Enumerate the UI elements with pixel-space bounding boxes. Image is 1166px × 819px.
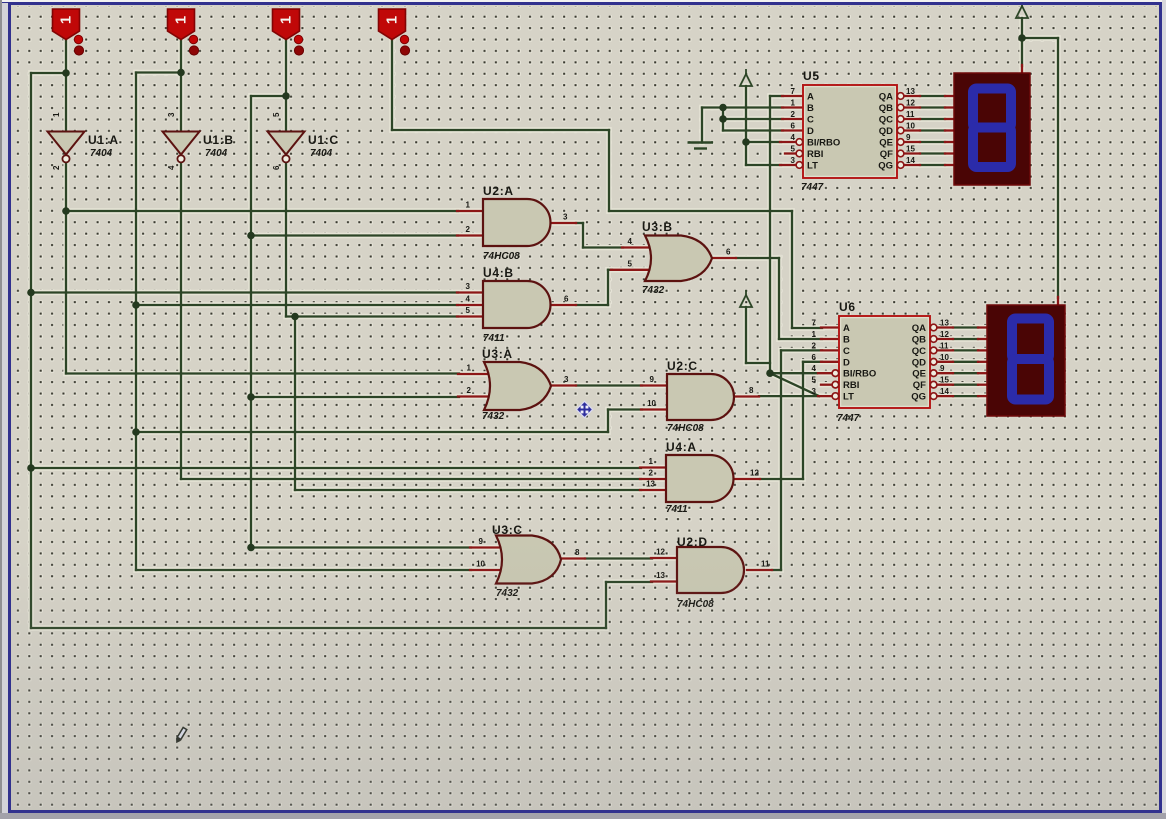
pin stub (937,396.1)-(953,396.1) <box>937 395 953 397</box>
pin stub (904,119)-(920,119) <box>904 118 920 120</box>
svg-text:C: C <box>843 346 850 357</box>
AND gate U2:C 74HC08 <box>667 374 734 420</box>
AND gate U4:B 7411 <box>483 281 551 328</box>
svg-text:A: A <box>843 323 850 334</box>
wire junction (136,432) <box>132 428 140 436</box>
svg-text:QG: QG <box>878 161 893 172</box>
wire segment (920,153.5)-(945,153.5) <box>920 152 945 154</box>
wire segment (920,107.5)-(945,107.5) <box>920 106 945 108</box>
wire junction (770,373.2) <box>766 369 774 377</box>
svg-text:1: 1 <box>649 457 654 466</box>
wire segment (31,292.5)-(458,292.5) <box>31 291 458 293</box>
pin stub (945,153.5)-(954,153.5) <box>945 152 954 154</box>
svg-text:74HC08: 74HC08 <box>667 423 704 434</box>
svg-text:U4:B: U4:B <box>483 266 514 280</box>
wire junction (251,547.5) <box>247 544 255 552</box>
wire segment (136,570)-(471,570) <box>136 569 471 571</box>
svg-text:U3:B: U3:B <box>642 220 673 234</box>
wire segment (181,479)-(641,479) <box>181 478 641 480</box>
svg-text:10: 10 <box>906 122 915 131</box>
wire segment (66,39)-(66,132) <box>65 39 67 132</box>
pin stub (470,547.5)-(504,547.5) <box>470 546 504 548</box>
svg-text:1: 1 <box>467 364 472 373</box>
wire segment (136,432)-(608,432) <box>136 431 608 433</box>
pin stub (782,96)-(803,96) <box>782 95 803 97</box>
wire segment (66,163)-(66,373.5) <box>65 163 67 374</box>
pin stub (937,384.7)-(953,384.7) <box>937 384 953 386</box>
svg-text:4: 4 <box>628 237 633 246</box>
svg-text:14: 14 <box>940 387 949 396</box>
svg-text:QC: QC <box>879 115 893 126</box>
svg-text:U5: U5 <box>803 69 820 83</box>
svg-text:6: 6 <box>564 295 569 304</box>
pin stub (937,327.5)-(953,327.5) <box>937 326 953 328</box>
pin stub (551,385.5)-(576,385.5) <box>551 384 576 386</box>
wire segment (136,72.5)-(136,570) <box>135 73 137 571</box>
svg-text:BI/RBO: BI/RBO <box>807 138 840 149</box>
svg-text:3: 3 <box>564 375 569 384</box>
svg-text:C: C <box>807 115 814 126</box>
logic state toggle input 1 <box>53 9 80 40</box>
wire segment (792,328)-(822,328) <box>792 327 822 329</box>
pin stub (904,130.5)-(920,130.5) <box>904 129 920 131</box>
svg-text:1: 1 <box>52 112 61 117</box>
pin stub (735,479)-(760,479) <box>735 478 760 480</box>
pin stub (818,373.2)-(832.3,373.2) <box>818 372 832 374</box>
window frame <box>0 0 1166 2</box>
wire segment (608,432)-(608,409.5) <box>607 410 609 433</box>
wire segment (779,258)-(779,339) <box>778 258 780 339</box>
wire segment (953,396.1)-(978,396.1) <box>953 395 978 397</box>
svg-text:1: 1 <box>173 16 190 24</box>
pin stub (712,258)-(736,258) <box>712 257 736 259</box>
pin stub (747,570)-(772,570) <box>747 569 772 571</box>
BCD decoder U5 7447 <box>803 85 897 178</box>
pin stub (780,165)-(796.3,165) <box>780 164 796 166</box>
logic state toggle input 2 <box>168 9 195 40</box>
pin stub (978,361.8)-(987,361.8) <box>978 361 987 363</box>
svg-text:U3:A: U3:A <box>482 347 513 361</box>
svg-text:8: 8 <box>749 386 754 395</box>
OR gate U3:A 7432 <box>484 362 551 410</box>
pin stub (821,361.8)-(839,361.8) <box>821 361 839 363</box>
wire segment (1022,38)-(1058,38) <box>1022 37 1058 39</box>
AND gate U2:A 74HC08 <box>483 199 550 246</box>
svg-text:3: 3 <box>812 387 817 396</box>
wire junction (136,305) <box>132 301 140 309</box>
svg-text:1: 1 <box>466 201 471 210</box>
pin stub (945,107.5)-(954,107.5) <box>945 106 954 108</box>
wire segment (392,130)-(609,130) <box>392 129 609 131</box>
wire segment (953,384.7)-(978,384.7) <box>953 384 978 386</box>
svg-text:BI/RBO: BI/RBO <box>843 369 876 380</box>
svg-text:6: 6 <box>726 248 731 257</box>
BCD decoder U6 7447 <box>839 316 930 408</box>
pin stub (1022,65)-(1022,74) <box>1021 65 1023 74</box>
wire segment (286,316.5)-(458,316.5) <box>286 315 458 317</box>
svg-text:4: 4 <box>812 364 817 373</box>
wire segment (286,96)-(251,96) <box>251 95 286 97</box>
wire segment (779,339)-(822,339) <box>779 338 822 340</box>
svg-text:3: 3 <box>563 213 568 222</box>
svg-text:QF: QF <box>913 380 926 391</box>
pin stub (551,305)-(576,305) <box>551 304 576 306</box>
svg-text:13: 13 <box>940 319 949 328</box>
svg-text:3: 3 <box>167 112 176 117</box>
pin stub (937,373.2)-(953,373.2) <box>937 372 953 374</box>
pin stub (945,142)-(954,142) <box>945 141 954 143</box>
pin stub (735,396.5)-(759,396.5) <box>735 395 759 397</box>
pin stub (937,350.4)-(953,350.4) <box>937 349 953 351</box>
svg-text:1: 1 <box>791 99 796 108</box>
wire segment (66,373.5)-(459,373.5) <box>66 372 459 374</box>
wire junction (723,119) <box>719 115 727 123</box>
pencil cursor <box>174 727 187 744</box>
pin stub (611,269.8)-(653,269.8) <box>611 269 653 271</box>
svg-text:5: 5 <box>628 259 633 268</box>
wire segment (803,479)-(803,361.8) <box>802 362 804 479</box>
wire segment (1058,38)-(1058,298) <box>1057 38 1059 298</box>
svg-text:2: 2 <box>52 165 61 170</box>
svg-text:2: 2 <box>791 110 796 119</box>
svg-text:74HC08: 74HC08 <box>483 251 520 262</box>
wire segment (746,363)-(770,363) <box>746 362 770 364</box>
pin stub (818,396.1)-(832.3,396.1) <box>818 395 832 397</box>
power terminal above U5 <box>740 74 752 86</box>
svg-text:U1:C: U1:C <box>308 133 339 147</box>
svg-text:7404: 7404 <box>310 148 333 159</box>
pin stub (904,153.5)-(920,153.5) <box>904 152 920 154</box>
svg-text:7432: 7432 <box>482 411 505 422</box>
wire segment (66,73)-(31,73) <box>31 72 66 74</box>
svg-text:B: B <box>843 335 850 346</box>
wire segment (759,396.1)-(819,396.1) <box>759 395 819 397</box>
wire segment (920,142)-(945,142) <box>920 141 945 143</box>
wire segment (576,385.5)-(642,385.5) <box>576 384 642 386</box>
pin stub (945,96)-(954,96) <box>945 95 954 97</box>
wire segment (746,307)-(746,363) <box>745 307 747 363</box>
svg-text:9: 9 <box>650 375 655 384</box>
pin stub (780,142)-(796.3,142) <box>780 141 796 143</box>
U5 pin bubbles <box>796 139 803 146</box>
svg-text:1: 1 <box>58 16 75 24</box>
wire segment (181,39)-(181,132) <box>180 39 182 132</box>
pin stub (457,292.5)-(483,292.5) <box>457 291 483 293</box>
svg-text:U6: U6 <box>839 300 856 314</box>
pin stub (821,350.4)-(839,350.4) <box>821 349 839 351</box>
wire segment (295,490)-(641,490) <box>295 489 641 491</box>
svg-text:U1:A: U1:A <box>88 133 119 147</box>
svg-text:5: 5 <box>791 145 796 154</box>
wire segment (953,350.4)-(978,350.4) <box>953 349 978 351</box>
OR gate U3:C 7432 <box>496 536 561 584</box>
svg-text:QC: QC <box>912 346 926 357</box>
svg-text:7: 7 <box>812 319 817 328</box>
svg-text:4: 4 <box>167 165 176 170</box>
wire segment (181,72.5)-(136,72.5) <box>136 71 181 73</box>
wire segment (576,223)-(583,223) <box>576 222 583 224</box>
wire junction (66,211) <box>62 207 70 215</box>
wire segment (608,305)-(608,269.8) <box>607 270 609 305</box>
wire segment (792,211)-(792,328) <box>791 211 793 328</box>
svg-text:5: 5 <box>466 306 471 315</box>
svg-text:3: 3 <box>466 282 471 291</box>
wire segment (760,479)-(803,479) <box>760 478 803 480</box>
wire segment (31,73)-(31,628) <box>30 73 32 628</box>
pin stub (458,374)-(492,374) <box>458 373 492 375</box>
wire segment (781,570)-(781,350.4) <box>780 350 782 570</box>
wire segment (609,130)-(609,211) <box>608 130 610 211</box>
pin stub (904,142)-(920,142) <box>904 141 920 143</box>
pin stub (782,107.5)-(803,107.5) <box>782 106 803 108</box>
svg-text:12: 12 <box>906 99 915 108</box>
wire segment (702,107.5)-(783,107.5) <box>702 106 783 108</box>
svg-text:U2:C: U2:C <box>667 359 698 373</box>
pin stub (458,396.5)-(492,396.5) <box>458 395 492 397</box>
pin stub (945,165)-(954,165) <box>945 164 954 166</box>
svg-text:11: 11 <box>940 341 949 350</box>
svg-text:QA: QA <box>879 92 893 103</box>
pin stub (551,223)-(576,223) <box>551 222 576 224</box>
wire segment (770,96)-(783,96) <box>770 95 783 97</box>
svg-text:U2:A: U2:A <box>483 184 514 198</box>
wire segment (953,327.5)-(978,327.5) <box>953 326 978 328</box>
wire junction (746,142) <box>742 138 750 146</box>
pin stub (978,339)-(987,339) <box>978 338 987 340</box>
pin stub (651,558)-(677,558) <box>651 557 677 559</box>
svg-text:6: 6 <box>812 353 817 362</box>
svg-text:2: 2 <box>467 386 472 395</box>
pin stub (651,581.5)-(677,581.5) <box>651 580 677 582</box>
svg-text:5: 5 <box>812 376 817 385</box>
wire segment (723,107.5)-(723,130.5) <box>722 108 724 131</box>
svg-text:11: 11 <box>906 110 915 119</box>
wire segment (136,305)-(458,305) <box>136 304 458 306</box>
pin stub (937,339)-(953,339) <box>937 338 953 340</box>
svg-text:D: D <box>843 357 850 368</box>
svg-text:13: 13 <box>906 87 915 96</box>
svg-text:QD: QD <box>912 357 926 368</box>
svg-text:9: 9 <box>906 133 911 142</box>
pin stub (821,327.5)-(839,327.5) <box>821 326 839 328</box>
svg-text:10: 10 <box>940 353 949 362</box>
pin stub (622,247.5)-(653,247.5) <box>622 246 653 248</box>
svg-text:B: B <box>807 103 814 114</box>
wire junction (181,72.5) <box>177 69 185 77</box>
svg-text:QE: QE <box>912 369 926 380</box>
pin stub (821,339)-(839,339) <box>821 338 839 340</box>
wire junction (1022,38) <box>1018 34 1026 42</box>
wire segment (953,339)-(978,339) <box>953 338 978 340</box>
wire segment (583,247.5)-(623,247.5) <box>583 246 623 248</box>
pin stub (821,384.7)-(832.3,384.7) <box>821 384 832 386</box>
wire junction (66,73) <box>62 69 70 77</box>
wire segment (770,373.2)-(819,396.1) <box>770 373 819 396</box>
svg-text:5: 5 <box>272 112 281 117</box>
svg-text:1: 1 <box>384 16 401 24</box>
svg-text:QA: QA <box>912 323 926 334</box>
wire segment (723,130.5)-(783,130.5) <box>723 129 783 131</box>
svg-text:9: 9 <box>940 364 945 373</box>
pin stub (945,130.5)-(954,130.5) <box>945 129 954 131</box>
pin stub (782,130.5)-(803,130.5) <box>782 129 803 131</box>
svg-text:1: 1 <box>278 16 295 24</box>
AND gate U2:D 74HC08 <box>677 547 744 593</box>
svg-text:14: 14 <box>906 156 915 165</box>
pin stub (904,165)-(920,165) <box>904 164 920 166</box>
U6 pin bubbles <box>832 370 839 377</box>
svg-text:QB: QB <box>912 335 926 346</box>
svg-text:2: 2 <box>649 469 654 478</box>
pin stub (978,373.2)-(987,373.2) <box>978 372 987 374</box>
wire segment (772,570)-(781,570) <box>772 569 781 571</box>
svg-text:U3:C: U3:C <box>492 523 523 537</box>
wire segment (286,163)-(286,316.5) <box>285 163 287 317</box>
svg-text:2: 2 <box>812 341 817 350</box>
svg-text:LT: LT <box>807 161 818 172</box>
wire segment (723,119)-(783,119) <box>723 118 783 120</box>
pin stub (978,327.5)-(987,327.5) <box>978 326 987 328</box>
wire segment (746,165)-(781,165) <box>746 164 781 166</box>
pin stub (978,396.1)-(987,396.1) <box>978 395 987 397</box>
svg-text:A: A <box>807 92 814 103</box>
pin stub (904,107.5)-(920,107.5) <box>904 106 920 108</box>
logic state toggle input 3 <box>273 9 300 40</box>
wire junction (31,292.5) <box>27 289 35 297</box>
wire segment (251,235.5)-(458,235.5) <box>251 234 458 236</box>
origin marker cursor <box>576 401 592 417</box>
pin stub (457,316.5)-(483,316.5) <box>457 315 483 317</box>
wire junction (251,397) <box>247 393 255 401</box>
svg-text:7404: 7404 <box>205 148 228 159</box>
pin stub (1058,297)-(1058,306) <box>1057 297 1059 306</box>
svg-text:7447: 7447 <box>801 182 824 193</box>
wire segment (392,39)-(392,130) <box>391 39 393 130</box>
OR gate U3:B 7432 <box>645 236 712 282</box>
wire segment (576,305)-(608,305) <box>576 304 608 306</box>
inverter U1:B 7404 <box>163 132 200 155</box>
pin stub (470,570)-(504,570) <box>470 569 504 571</box>
pin stub (945,119)-(954,119) <box>945 118 954 120</box>
power terminal above displays <box>1016 6 1028 18</box>
svg-text:7432: 7432 <box>642 285 665 296</box>
svg-text:U1:B: U1:B <box>203 133 234 147</box>
pin stub (640,490)-(666,490) <box>640 489 666 491</box>
svg-text:15: 15 <box>906 145 915 154</box>
wire segment (736,258)-(779,258) <box>736 257 779 259</box>
wire segment (953,361.8)-(978,361.8) <box>953 361 978 363</box>
wire segment (770,96)-(770,373.2) <box>769 96 771 373</box>
wire segment (583,223)-(583,247.5) <box>582 223 584 248</box>
inverter U1:C 7404 <box>268 132 305 155</box>
wire junction (286,96) <box>282 92 290 100</box>
wire segment (920,130.5)-(945,130.5) <box>920 129 945 131</box>
svg-text:QB: QB <box>879 103 893 114</box>
svg-text:13: 13 <box>646 480 655 489</box>
inverter U1:A 7404 <box>48 132 85 155</box>
svg-text:RBI: RBI <box>843 380 859 391</box>
pin stub (457,235.5)-(483,235.5) <box>457 234 483 236</box>
wire segment (953,373.2)-(978,373.2) <box>953 372 978 374</box>
svg-text:LT: LT <box>843 392 854 403</box>
power terminal above U6 <box>740 295 752 307</box>
wire segment (251,96)-(251,547.5) <box>250 96 252 548</box>
svg-text:U4:A: U4:A <box>666 440 697 454</box>
svg-text:7411: 7411 <box>483 333 505 344</box>
wire segment (66,211)-(458,211) <box>66 210 458 212</box>
wire junction (723,107.5) <box>719 104 727 112</box>
pin stub (457,211)-(483,211) <box>457 210 483 212</box>
ground <box>688 143 714 149</box>
pin stub (904,96)-(920,96) <box>904 95 920 97</box>
wire segment (31,628)-(606,628) <box>31 627 606 629</box>
pin stub (640,479)-(666,479) <box>640 478 666 480</box>
wire segment (920,165)-(945,165) <box>920 164 945 166</box>
wire segment (606,582)-(652,582) <box>606 581 652 583</box>
pin stub (641,385.5)-(667,385.5) <box>641 384 667 386</box>
svg-text:RBI: RBI <box>807 149 823 160</box>
pin stub (641,409.5)-(667,409.5) <box>641 408 667 410</box>
wire segment (803,361.8)-(822,361.8) <box>803 361 822 363</box>
wire junction (295,316.5) <box>291 313 299 321</box>
svg-text:QF: QF <box>880 149 893 160</box>
pin stub (785,153.5)-(796.3,153.5) <box>785 152 796 154</box>
wire segment (702,142.5)-(702,107.5) <box>701 108 703 143</box>
wire halos <box>31 18 1058 628</box>
wire junction (251,235.5) <box>247 232 255 240</box>
svg-text:7404: 7404 <box>90 148 113 159</box>
7-segment display tens digit <box>954 73 1030 185</box>
svg-text:1: 1 <box>812 330 817 339</box>
wire segment (746,142)-(781,142) <box>746 141 781 143</box>
wire segment (781,350.4)-(822,350.4) <box>781 349 822 351</box>
wire segment (608,409.5)-(642,409.5) <box>608 408 642 410</box>
wire segment (585,558.5)-(652,558.5) <box>585 557 652 559</box>
svg-text:12: 12 <box>940 330 949 339</box>
wire segment (608,269.8)-(612,269.8) <box>608 269 612 271</box>
wire segment (606,628)-(606,582) <box>605 582 607 628</box>
wire segment (295,316.5)-(295,490) <box>294 317 296 491</box>
pin stub (561,558.5)-(585,558.5) <box>561 557 585 559</box>
wire segment (920,96)-(945,96) <box>920 95 945 97</box>
svg-text:QE: QE <box>879 138 893 149</box>
wire segment (920,119)-(945,119) <box>920 118 945 120</box>
wire segment (181,163)-(181,479) <box>180 163 182 479</box>
wire segment (251,547.5)-(471,547.5) <box>251 546 471 548</box>
wire junction (31,468) <box>27 464 35 472</box>
wire segment (286,39)-(286,132) <box>285 39 287 132</box>
svg-text:7411: 7411 <box>666 504 688 515</box>
wire segment (746,86)-(746,165) <box>745 86 747 165</box>
svg-text:QD: QD <box>879 126 893 137</box>
svg-text:7447: 7447 <box>837 413 860 424</box>
wire segment (609,211)-(792,211) <box>609 210 792 212</box>
svg-text:D: D <box>807 126 814 137</box>
svg-text:2: 2 <box>466 225 471 234</box>
svg-text:7: 7 <box>791 87 796 96</box>
svg-text:3: 3 <box>791 156 796 165</box>
wire segment (31,468)-(641,468) <box>31 467 641 469</box>
svg-text:10: 10 <box>647 399 656 408</box>
svg-text:QG: QG <box>911 392 926 403</box>
wire segment (251,397)-(459,397) <box>251 396 459 398</box>
7-segment display ones digit <box>987 305 1065 416</box>
pin stub (937,361.8)-(953,361.8) <box>937 361 953 363</box>
pin stub (978,350.4)-(987,350.4) <box>978 349 987 351</box>
pin stub (640,467.5)-(666,467.5) <box>640 466 666 468</box>
svg-text:4: 4 <box>791 133 796 142</box>
svg-text:15: 15 <box>940 376 949 385</box>
